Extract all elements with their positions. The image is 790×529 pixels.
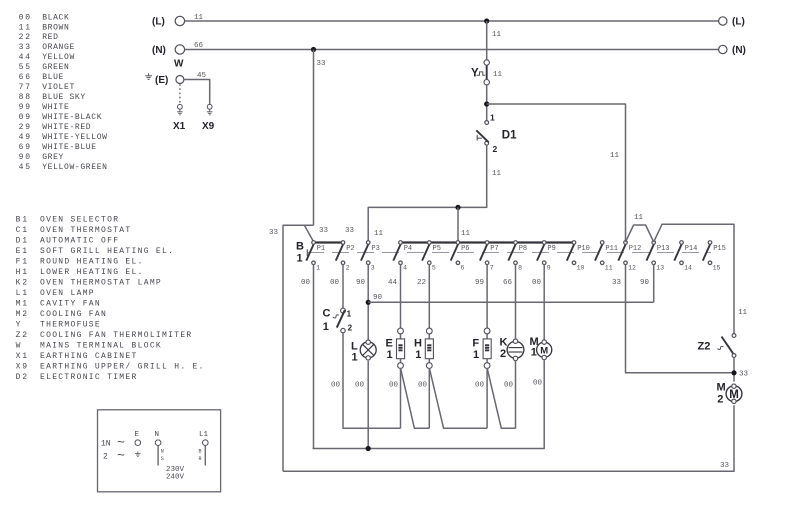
- svg-text:29: 29: [19, 123, 32, 132]
- terminal (N) right: [719, 45, 727, 53]
- svg-text:11: 11: [19, 23, 32, 32]
- cooling fan motor M2: [726, 386, 742, 402]
- wire 11 from L down to Y: [486, 21, 488, 60]
- thermolimiter Z2: [732, 334, 736, 338]
- svg-text:M: M: [717, 381, 726, 393]
- svg-text:90: 90: [640, 279, 650, 287]
- svg-text:45: 45: [19, 163, 32, 172]
- wire 99 from contact 7 to F1: [486, 265, 488, 329]
- svg-text:Z2: Z2: [16, 331, 29, 340]
- earth symbol in box: [135, 452, 140, 457]
- switch contact P11: [595, 244, 603, 261]
- terminal E in box: [135, 440, 141, 446]
- svg-text:E: E: [386, 338, 393, 350]
- svg-text:THERMOFUSE: THERMOFUSE: [40, 321, 101, 330]
- svg-text:BLACK: BLACK: [42, 13, 69, 22]
- switch contact P13: [647, 244, 655, 261]
- earth symbol X9: [207, 110, 213, 115]
- svg-text:1N: 1N: [101, 440, 111, 449]
- svg-text:EARTHING CABINET: EARTHING CABINET: [40, 352, 138, 361]
- svg-text:3: 3: [371, 265, 375, 272]
- switch contact P9: [537, 244, 545, 261]
- svg-text:WHITE-BLUE: WHITE-BLUE: [42, 143, 97, 152]
- svg-text:66: 66: [19, 73, 32, 82]
- svg-text:P13: P13: [657, 245, 670, 253]
- svg-text:11: 11: [738, 309, 748, 317]
- junction Z2-M2 node 33: [731, 370, 736, 375]
- wire 90 from contact 3 to L1: [367, 265, 369, 342]
- thermofuse Y: [486, 64, 488, 81]
- switch contact P4: [393, 244, 401, 261]
- thermostat lamp K2: [507, 341, 524, 358]
- heating element F1: [486, 334, 488, 339]
- cavity fan motor M1: [537, 342, 552, 357]
- switch contact P14: [674, 244, 682, 261]
- svg-text:1: 1: [323, 321, 329, 333]
- svg-text:D2: D2: [16, 373, 29, 382]
- svg-text:00: 00: [330, 279, 340, 287]
- wire line L (11): [185, 20, 719, 22]
- svg-text:1: 1: [316, 265, 320, 272]
- svg-text:66: 66: [194, 42, 204, 50]
- svg-text:99: 99: [475, 279, 484, 287]
- svg-text:11: 11: [634, 214, 644, 222]
- wire C1 to E1 bottom: [343, 333, 401, 429]
- svg-text:2: 2: [348, 324, 353, 333]
- wire L1 to bottom rail: [367, 361, 369, 449]
- junction on line N: [311, 47, 316, 52]
- svg-text:B: B: [296, 241, 304, 253]
- svg-text:X1: X1: [173, 121, 186, 132]
- svg-text:BROWN: BROWN: [42, 23, 69, 32]
- svg-text:X9: X9: [202, 121, 215, 132]
- svg-text:F1: F1: [16, 258, 29, 267]
- svg-text:OVEN THERMOSTAT LAMP: OVEN THERMOSTAT LAMP: [40, 279, 162, 288]
- svg-text:00: 00: [389, 382, 399, 390]
- svg-text:B1: B1: [16, 216, 29, 225]
- switch contact P7: [480, 244, 488, 261]
- svg-text:22: 22: [417, 279, 426, 287]
- svg-text:GREEN: GREEN: [42, 63, 69, 72]
- wire 90 across to contact 13: [368, 301, 654, 303]
- svg-text:X1: X1: [16, 352, 29, 361]
- svg-text:(E): (E): [155, 75, 168, 86]
- wire M2 to 33 bottom rail: [283, 405, 734, 471]
- svg-text:SOFT GRILL HEATING EL.: SOFT GRILL HEATING EL.: [40, 247, 174, 256]
- wire 44 from contact 4 to E1: [400, 265, 402, 329]
- svg-text:1: 1: [531, 347, 537, 359]
- svg-text:33: 33: [720, 462, 730, 470]
- svg-text:11: 11: [461, 230, 471, 238]
- svg-text:90: 90: [356, 279, 366, 287]
- wire H1 bottom down: [428, 368, 430, 428]
- svg-text:66: 66: [503, 279, 513, 287]
- switch contact P3: [361, 244, 369, 261]
- switch contact P15: [703, 244, 711, 261]
- svg-text:H1: H1: [16, 268, 29, 277]
- svg-text:(N): (N): [732, 45, 746, 56]
- svg-text:W: W: [174, 59, 184, 70]
- svg-text:WHITE-RED: WHITE-RED: [42, 123, 91, 132]
- svg-text:4: 4: [403, 265, 407, 272]
- terminal X9: [207, 104, 212, 109]
- svg-text:22: 22: [19, 33, 32, 42]
- wire 90 from contact 13: [653, 265, 655, 303]
- selector B1 mechanical linkage: [307, 252, 711, 254]
- svg-text:D1: D1: [16, 237, 29, 246]
- wire D1 out to P3: [368, 145, 487, 241]
- svg-text:P15: P15: [713, 245, 726, 253]
- svg-text:P1: P1: [317, 245, 325, 253]
- wire 11 from Y node to P12: [487, 104, 626, 241]
- wire bridge P12-P13 (11): [626, 225, 654, 242]
- wire 00 from contact 9 to M1: [543, 265, 545, 340]
- earth symbol at (E): [145, 73, 152, 79]
- wire 00 from contact 1: [313, 265, 315, 449]
- svg-text:14: 14: [684, 265, 692, 272]
- wire Y to D1: [486, 84, 488, 120]
- wire 22 from contact 5 to H1: [428, 265, 430, 329]
- svg-text:P14: P14: [685, 245, 698, 253]
- svg-text:9: 9: [547, 265, 551, 272]
- svg-text:N: N: [155, 431, 160, 439]
- junction on D1 output wire: [455, 205, 460, 210]
- svg-text:F: F: [472, 338, 479, 350]
- svg-text:11: 11: [610, 152, 620, 160]
- svg-text:MAINS TERMINAL BLOCK: MAINS TERMINAL BLOCK: [40, 341, 162, 350]
- svg-text:6: 6: [461, 265, 465, 272]
- svg-text:2: 2: [346, 265, 350, 272]
- terminal (L) left: [175, 16, 184, 25]
- svg-text:P11: P11: [605, 245, 618, 253]
- terminal (E): [176, 76, 184, 84]
- wire L1 in box: [204, 446, 206, 466]
- switch contact P1: [306, 244, 314, 261]
- svg-text:P8: P8: [519, 245, 527, 253]
- svg-text:11: 11: [605, 265, 613, 272]
- svg-text:00: 00: [301, 279, 311, 287]
- svg-text:240V: 240V: [166, 474, 185, 482]
- svg-text:L1: L1: [16, 289, 29, 298]
- svg-text:P12: P12: [629, 245, 642, 253]
- svg-text:P5: P5: [433, 245, 441, 253]
- svg-text:33: 33: [269, 229, 279, 237]
- svg-text:ORANGE: ORANGE: [42, 43, 75, 52]
- svg-text:BLUE SKY: BLUE SKY: [42, 93, 86, 102]
- svg-text:77: 77: [19, 83, 32, 92]
- svg-text:CAVITY FAN: CAVITY FAN: [40, 300, 101, 309]
- switch contact P10: [567, 244, 575, 261]
- svg-text:99: 99: [19, 103, 32, 112]
- svg-text:K: K: [500, 337, 508, 349]
- switch contact P8: [508, 244, 516, 261]
- svg-text:33: 33: [739, 371, 749, 379]
- svg-text:Z2: Z2: [698, 340, 711, 352]
- svg-text:8: 8: [518, 265, 522, 272]
- svg-text:7: 7: [490, 265, 494, 272]
- switch contact P5: [422, 244, 430, 261]
- svg-text:00: 00: [355, 382, 365, 390]
- svg-text:00: 00: [532, 279, 542, 287]
- svg-text:C1: C1: [16, 226, 29, 235]
- svg-text:S: S: [161, 456, 164, 462]
- svg-text:P9: P9: [547, 245, 555, 253]
- svg-text:11: 11: [492, 31, 502, 39]
- svg-text:AUTOMATIC OFF: AUTOMATIC OFF: [40, 237, 119, 246]
- svg-text:(L): (L): [152, 17, 165, 28]
- svg-text:00: 00: [19, 13, 32, 22]
- svg-text:69: 69: [19, 143, 32, 152]
- svg-text:WHITE-BLACK: WHITE-BLACK: [42, 113, 102, 122]
- svg-text:(L): (L): [732, 17, 745, 28]
- svg-text:2: 2: [493, 144, 498, 154]
- dashed wire to X1: [179, 84, 181, 104]
- svg-text:WHITE-YELLOW: WHITE-YELLOW: [42, 133, 107, 142]
- wire 66 from contact 8 to K2: [515, 265, 517, 340]
- svg-text:P10: P10: [577, 245, 590, 253]
- wire Z2 to M2: [733, 357, 735, 381]
- terminal N in box: [155, 440, 161, 446]
- svg-text:2: 2: [103, 453, 108, 462]
- terminal (N) left: [175, 45, 184, 54]
- svg-text:Y: Y: [471, 68, 479, 80]
- switch contact P2: [336, 244, 344, 261]
- wire M1 bottom rail 00: [313, 360, 545, 449]
- svg-text:1: 1: [297, 253, 303, 265]
- junction L1 on bottom rail: [366, 446, 371, 451]
- switch contact P6: [451, 244, 459, 261]
- svg-text:M1: M1: [16, 300, 29, 309]
- supply connection box: [98, 410, 221, 492]
- svg-text:90: 90: [373, 294, 383, 302]
- svg-text:1: 1: [415, 349, 421, 361]
- svg-text:~: ~: [117, 448, 125, 463]
- svg-text:ELECTRONIC TIMER: ELECTRONIC TIMER: [40, 373, 138, 382]
- svg-text:B: B: [199, 448, 202, 454]
- bus P1-P2: [314, 241, 344, 243]
- svg-text:YELLOW-GREEN: YELLOW-GREEN: [42, 163, 107, 172]
- svg-text:E1: E1: [16, 247, 29, 256]
- svg-text:00: 00: [418, 382, 428, 390]
- svg-text:OVEN LAMP: OVEN LAMP: [40, 289, 95, 298]
- svg-text:11: 11: [374, 230, 384, 238]
- terminal (L) right: [719, 17, 727, 25]
- switch contact P12: [618, 244, 626, 261]
- svg-text:2: 2: [500, 348, 506, 360]
- svg-text:49: 49: [19, 133, 32, 142]
- svg-text:N: N: [161, 448, 164, 454]
- thermostat C1: [341, 308, 346, 313]
- svg-text:WHITE: WHITE: [42, 103, 69, 112]
- svg-text:ROUND HEATING EL.: ROUND HEATING EL.: [40, 258, 144, 267]
- wire 33 from N down: [313, 50, 315, 226]
- heating element E1: [400, 334, 402, 339]
- svg-text:00: 00: [331, 382, 341, 390]
- svg-text:H: H: [414, 338, 422, 350]
- wire H1 diagonal to F1 bottom: [429, 368, 487, 428]
- wire 33 branch to bottom rail: [283, 225, 314, 471]
- svg-text:YELLOW: YELLOW: [42, 53, 75, 62]
- wire down to P6 bus: [457, 207, 459, 240]
- wire E1 bottom down: [400, 368, 402, 428]
- svg-text:11: 11: [194, 14, 204, 22]
- junction 90 node: [366, 300, 371, 305]
- svg-text:2: 2: [717, 393, 723, 405]
- svg-text:P4: P4: [404, 245, 412, 253]
- wire line N (66): [185, 49, 719, 51]
- svg-text:88: 88: [19, 93, 32, 102]
- svg-text:33: 33: [317, 60, 327, 68]
- svg-text:COOLING FAN: COOLING FAN: [40, 310, 107, 319]
- junction node below Y: [484, 101, 489, 106]
- svg-text:13: 13: [656, 265, 664, 272]
- svg-text:09: 09: [19, 113, 32, 122]
- svg-text:OVEN THERMOSTAT: OVEN THERMOSTAT: [40, 226, 132, 235]
- svg-text:00: 00: [504, 382, 514, 390]
- svg-text:44: 44: [19, 53, 32, 62]
- oven lamp L1: [360, 342, 376, 358]
- svg-text:11: 11: [492, 170, 502, 178]
- svg-text:1: 1: [352, 351, 358, 363]
- svg-text:33: 33: [612, 279, 622, 287]
- svg-text:L1: L1: [199, 431, 209, 439]
- svg-text:15: 15: [713, 265, 721, 272]
- svg-text:44: 44: [388, 279, 398, 287]
- svg-text:RED: RED: [42, 33, 58, 42]
- svg-text:90: 90: [19, 153, 32, 162]
- svg-text:(N): (N): [152, 45, 166, 56]
- svg-text:33: 33: [19, 43, 32, 52]
- bus P4-P10: [401, 241, 575, 243]
- svg-text:BLUE: BLUE: [42, 73, 64, 82]
- svg-text:00: 00: [475, 382, 485, 390]
- svg-text:1: 1: [347, 310, 352, 319]
- svg-text:55: 55: [19, 63, 32, 72]
- svg-text:00: 00: [533, 380, 543, 388]
- heating element H1: [428, 334, 430, 339]
- svg-text:OVEN SELECTOR: OVEN SELECTOR: [40, 216, 119, 225]
- svg-text:C: C: [323, 307, 331, 319]
- svg-text:1: 1: [490, 112, 495, 122]
- terminal L1 in box: [203, 440, 209, 446]
- svg-text:VIOLET: VIOLET: [42, 83, 75, 92]
- wire F1 bottom down: [486, 368, 488, 428]
- wire E1 diagonal to H1 bottom: [401, 368, 430, 428]
- svg-text:P2: P2: [346, 245, 354, 253]
- svg-text:D1: D1: [502, 130, 517, 142]
- junction on line L: [484, 18, 489, 23]
- svg-text:COOLING FAN THERMOLIMITER: COOLING FAN THERMOLIMITER: [40, 331, 193, 340]
- svg-text:1: 1: [473, 349, 479, 361]
- earth symbol X1: [177, 110, 183, 115]
- wire N in box: [157, 446, 159, 466]
- wire earth 45 to X9: [184, 80, 210, 105]
- wire 33 from contact 12 to Z2 node: [626, 265, 732, 373]
- svg-text:M2: M2: [16, 310, 29, 319]
- svg-text:10: 10: [577, 265, 585, 272]
- wire 00 from contact 2 to C1: [342, 265, 344, 309]
- terminal X1: [178, 104, 183, 109]
- svg-text:P7: P7: [490, 245, 498, 253]
- svg-text:GREY: GREY: [42, 153, 64, 162]
- svg-text:E: E: [135, 431, 140, 439]
- svg-text:LOWER HEATING EL.: LOWER HEATING EL.: [40, 268, 144, 277]
- svg-text:11: 11: [493, 71, 503, 79]
- wire P13 to Z2 (11): [654, 224, 734, 333]
- wire diagonal to P1: [305, 226, 314, 242]
- svg-text:R: R: [199, 456, 202, 462]
- svg-text:5: 5: [432, 265, 436, 272]
- wire F1 diagonal to K2 bottom: [487, 368, 515, 428]
- svg-text:EARTHING UPPER/ GRILL H. E.: EARTHING UPPER/ GRILL H. E.: [40, 362, 205, 371]
- svg-text:12: 12: [628, 265, 636, 272]
- svg-text:33: 33: [345, 227, 355, 235]
- svg-text:X9: X9: [16, 362, 29, 371]
- switch D1 automatic off: [485, 121, 489, 125]
- svg-text:Y: Y: [16, 321, 23, 330]
- svg-text:33: 33: [319, 227, 329, 235]
- wire K2 bottom down: [515, 360, 517, 428]
- svg-text:P6: P6: [461, 245, 469, 253]
- svg-text:1: 1: [386, 349, 392, 361]
- svg-text:W: W: [16, 341, 23, 350]
- svg-text:K2: K2: [16, 279, 29, 288]
- svg-text:P3: P3: [371, 245, 379, 253]
